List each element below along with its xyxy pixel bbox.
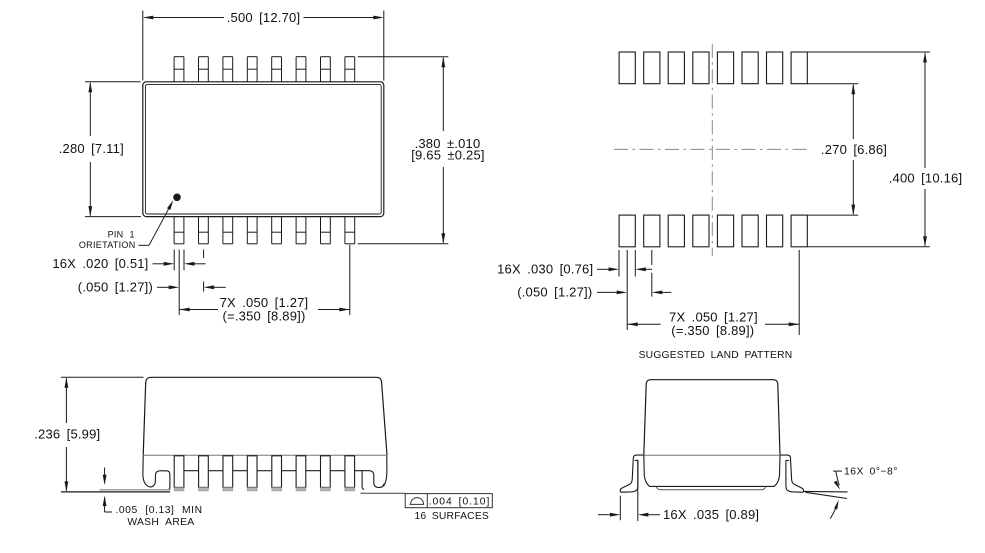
pin 1 orientation leader and label bbox=[79, 200, 173, 250]
land pad 2 top row bbox=[644, 52, 660, 84]
svg-text:PIN 1: PIN 1 bbox=[108, 229, 135, 239]
note SUGGESTED LAND PATTERN bbox=[639, 350, 793, 361]
angle reference lines 0-8 deg (end view) bbox=[804, 491, 848, 498]
svg-text:.270 [6.86]: .270 [6.86] bbox=[821, 142, 887, 157]
lead 5 (side view) bbox=[272, 456, 282, 491]
pin 4 top row (top view) bbox=[247, 57, 257, 82]
dimension .270 [6.86] inner pad span bbox=[807, 84, 887, 215]
land pad 3 bottom row bbox=[668, 215, 684, 247]
svg-text:ORIETATION: ORIETATION bbox=[79, 240, 136, 250]
flatness feature control frame .004 [0.10] bbox=[405, 494, 492, 508]
land pad 7 bottom row bbox=[767, 215, 783, 247]
pin 1 top row (top view) bbox=[174, 57, 184, 82]
lead 7 (side view) bbox=[321, 456, 331, 491]
far-row lead foot line segment 3 (side view) bbox=[233, 470, 248, 472]
land pad 6 bottom row bbox=[742, 215, 758, 247]
lead 4 (side view) bbox=[247, 456, 257, 491]
svg-text:(=.350 [8.89]): (=.350 [8.89]) bbox=[223, 309, 306, 324]
far-row lead foot line segment 6 (side view) bbox=[306, 470, 321, 472]
svg-text:[9.65 ±0.25]: [9.65 ±0.25] bbox=[411, 147, 484, 162]
vertical centerline (land pattern) bbox=[711, 44, 713, 256]
svg-text:.236 [5.99]: .236 [5.99] bbox=[34, 427, 100, 442]
pin 7 top row (top view) bbox=[321, 57, 331, 82]
pin 8 top row (top view) bbox=[345, 57, 355, 82]
far-row lead foot line segment 4 (side view) bbox=[257, 470, 272, 472]
mold parting line (side view) bbox=[143, 454, 387, 456]
lead 2 (side view) bbox=[199, 456, 209, 491]
svg-text:16X .030 [0.76]: 16X .030 [0.76] bbox=[497, 262, 593, 277]
dimension .236 [5.99] body height (side view) bbox=[34, 377, 143, 492]
dimension .380 ±.010 [9.65 ±0.25] right side bbox=[358, 57, 485, 244]
pin 6 top row (top view) bbox=[296, 57, 306, 82]
far-row lead foot line segment 2 (side view) bbox=[208, 470, 223, 472]
svg-text:16X .020 [0.51]: 16X .020 [0.51] bbox=[52, 256, 148, 271]
svg-text:.500 [12.70]: .500 [12.70] bbox=[227, 10, 301, 25]
far-row lead foot line segment 5 (side view) bbox=[282, 470, 297, 472]
svg-text:.004 [0.10]: .004 [0.10] bbox=[429, 497, 491, 508]
land pad 1 bottom row bbox=[619, 215, 635, 247]
svg-text:(.050 [1.27]): (.050 [1.27]) bbox=[517, 285, 592, 300]
dimension .400 [10.16] outer pad span bbox=[807, 52, 962, 247]
gull-wing lead left (end view) bbox=[620, 455, 643, 492]
svg-text:(.050 [1.27]): (.050 [1.27]) bbox=[78, 280, 153, 295]
pin 4 bottom row (top view) bbox=[247, 217, 257, 244]
dimension .500 [12.70] across top bbox=[143, 10, 384, 81]
lead 8 (side view) bbox=[345, 456, 355, 491]
dimension 7X .050 [1.27] (=.350 [8.89]) (top view) bbox=[179, 245, 350, 324]
flatness feature control frame leader bbox=[360, 492, 405, 494]
svg-text:.005 [0.13] MIN: .005 [0.13] MIN bbox=[116, 505, 203, 516]
note 16 SURFACES bbox=[414, 511, 489, 522]
land pad 4 top row bbox=[693, 52, 709, 84]
pin 6 bottom row (top view) bbox=[296, 217, 306, 244]
pin 5 top row (top view) bbox=[272, 57, 282, 82]
land pad 5 top row bbox=[717, 52, 733, 84]
svg-text:(=.350 [8.89]): (=.350 [8.89]) bbox=[671, 323, 754, 338]
lead 6 (side view) bbox=[296, 456, 306, 491]
land pad 1 top row bbox=[619, 52, 635, 84]
pin 5 bottom row (top view) bbox=[272, 217, 282, 244]
dimension .005 [0.13] MIN wash area bbox=[103, 468, 203, 528]
svg-text:.280 [7.11]: .280 [7.11] bbox=[59, 141, 124, 156]
dimension (.050 [1.27]) pad pitch bbox=[517, 250, 671, 330]
svg-text:16X .035 [0.89]: 16X .035 [0.89] bbox=[663, 507, 759, 522]
land pad 3 top row bbox=[668, 52, 684, 84]
land pad 8 bottom row bbox=[791, 215, 807, 247]
dimension .280 [7.11] left side bbox=[59, 82, 141, 217]
pin 1 bottom row (top view) bbox=[174, 217, 184, 244]
dimension (.050 [1.27]) lead pitch (top view) bbox=[78, 250, 226, 315]
horizontal centerline (land pattern) bbox=[614, 148, 811, 150]
dimension 16X .020 [0.51] lead width (top view) bbox=[52, 250, 205, 272]
far-row lead foot line segment 1 (side view) bbox=[184, 470, 199, 472]
land pad 4 bottom row bbox=[693, 215, 709, 247]
dimension 16X .035 [0.89] foot length (end view) bbox=[598, 460, 759, 522]
package body outline (top view) bbox=[143, 82, 384, 217]
pin 7 bottom row (top view) bbox=[321, 217, 331, 244]
package body outline (end view) bbox=[644, 380, 780, 456]
svg-text:16X 0°−8°: 16X 0°−8° bbox=[844, 467, 898, 478]
package body bottom (end view) bbox=[644, 455, 780, 490]
pin 3 bottom row (top view) bbox=[223, 217, 233, 244]
pin 3 top row (top view) bbox=[223, 57, 233, 82]
angular dimension arcs (end view) bbox=[830, 471, 842, 518]
land pad 8 top row bbox=[791, 52, 807, 84]
gull-wing lead right (end view) bbox=[780, 455, 803, 492]
pin 2 bottom row (top view) bbox=[199, 217, 209, 244]
land pad 6 top row bbox=[742, 52, 758, 84]
pin 8 bottom row (top view) bbox=[345, 217, 355, 244]
svg-text:16 SURFACES: 16 SURFACES bbox=[414, 511, 489, 522]
lead 3 (side view) bbox=[223, 456, 233, 491]
lead 1 (side view) bbox=[174, 456, 184, 491]
land pad 7 top row bbox=[767, 52, 783, 84]
far-row lead foot line segment 7 (side view) bbox=[330, 470, 345, 472]
package body outline (side view) bbox=[143, 377, 387, 455]
angle text 16X 0-8 deg bbox=[844, 467, 898, 478]
svg-text:.400 [10.16]: .400 [10.16] bbox=[889, 171, 963, 186]
mold parting line (end view) bbox=[644, 454, 780, 456]
pin 1 orientation dot bbox=[173, 194, 181, 202]
svg-text:WASH AREA: WASH AREA bbox=[127, 517, 194, 528]
pin 2 top row (top view) bbox=[199, 57, 209, 82]
land pad 2 bottom row bbox=[644, 215, 660, 247]
svg-text:SUGGESTED LAND PATTERN: SUGGESTED LAND PATTERN bbox=[639, 350, 793, 361]
dimension 7X .050 [1.27] (=.350 [8.89]) pad row span bbox=[627, 250, 799, 338]
body lower-right standoff curve (side view) bbox=[355, 455, 387, 489]
dimension 16X .030 [0.76] pad width bbox=[497, 250, 652, 277]
seating plane line (side view) bbox=[61, 491, 170, 493]
wash area line (side view) bbox=[100, 489, 171, 491]
body lower-left standoff curve (side view) bbox=[143, 455, 170, 490]
land pad 5 bottom row bbox=[717, 215, 733, 247]
